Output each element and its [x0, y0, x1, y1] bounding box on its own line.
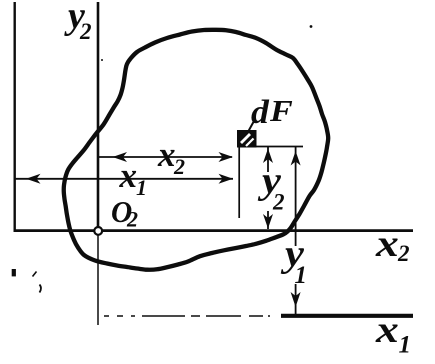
section outline (irregular area boundary) — [64, 30, 328, 270]
svg-text:2: 2 — [397, 241, 410, 266]
x1 left arrowhead — [26, 174, 41, 184]
svg-text:x: x — [119, 156, 138, 195]
y2 axis extension below O2 — [97, 231, 99, 325]
label dF — [251, 93, 269, 131]
y2 dimension line (lower segment) — [267, 211, 269, 229]
x2 axis (horizontal through O2) — [14, 229, 414, 232]
svg-text:F: F — [269, 94, 293, 128]
y1 up arrowhead — [291, 151, 301, 166]
svg-text:d: d — [251, 93, 269, 131]
svg-text:1: 1 — [399, 332, 412, 359]
y2 up arrowhead — [263, 149, 273, 164]
reference line right of dF — [250, 146, 303, 148]
svg-text:x: x — [375, 223, 399, 265]
label x1 (dimension) — [119, 156, 138, 195]
y1 axis (left vertical line) — [13, 2, 15, 230]
area element dF (hatched square) — [237, 130, 257, 148]
label y2 (dimension) — [257, 159, 282, 201]
ink speck (comma mark) — [40, 285, 42, 293]
svg-text:1: 1 — [295, 262, 308, 289]
label y1 (dimension) — [280, 232, 305, 274]
label x2 (axis) — [375, 223, 399, 265]
leader line from dF label to square — [249, 121, 255, 131]
y1 dimension line (lower segment) — [295, 284, 297, 314]
x1 right arrowhead — [219, 174, 234, 184]
x1 axis centerline extension (dash-dot) — [104, 315, 270, 317]
label O2 (origin) — [111, 194, 132, 229]
svg-text:x: x — [375, 309, 399, 351]
svg-text:2: 2 — [272, 190, 285, 215]
x1 dimension line — [15, 178, 233, 180]
x2 right arrowhead — [219, 152, 234, 162]
origin O2 (open circle) — [94, 227, 102, 235]
ink dot (top right) — [310, 25, 313, 28]
svg-text:2: 2 — [79, 19, 92, 44]
ink speck (left margin) — [12, 269, 16, 276]
y2 dimension line (upper segment) — [267, 147, 269, 172]
x2 left arrowhead — [113, 152, 128, 162]
x1 axis (thick right segment) — [281, 314, 413, 318]
ink dot (left of shoulder) — [101, 59, 103, 61]
y2 down arrowhead — [263, 214, 273, 229]
svg-text:1: 1 — [136, 175, 147, 200]
label x1 (axis) — [375, 309, 399, 351]
label y2 (axis, top) — [64, 0, 85, 37]
y1 dimension line (upper segment) — [295, 147, 297, 246]
svg-text:2: 2 — [173, 154, 185, 179]
y1 down arrowhead — [291, 292, 301, 307]
ink speck (diagonal tick) — [33, 272, 37, 277]
extension line below dF — [238, 147, 240, 218]
svg-text:2: 2 — [126, 207, 138, 232]
x2 dimension line — [99, 156, 232, 158]
label x2 (dimension) — [157, 135, 176, 174]
y2 axis (vertical through O2) — [97, 2, 100, 231]
svg-text:x: x — [157, 135, 176, 174]
